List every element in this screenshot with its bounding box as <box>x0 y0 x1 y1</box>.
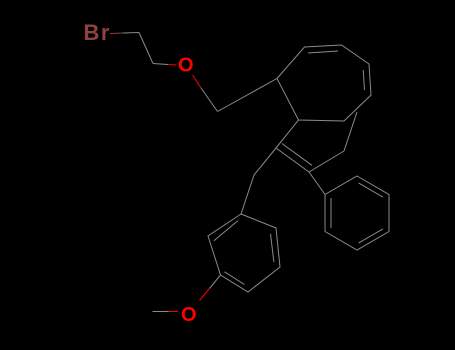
double bond C_A = C_B <box>276 148 309 172</box>
wire ethyl CH2 <box>309 151 344 172</box>
wire long bond to ring1 <box>218 79 278 112</box>
wire ethyl CH3 <box>344 112 357 151</box>
wire ring3 - O2 bond (gray then red) <box>210 275 221 289</box>
benzene ring2 (right) <box>325 176 389 250</box>
wire C2-O1 bond (half gray, half red) <box>153 64 168 65</box>
wire ring1 to C_A <box>276 120 299 148</box>
wire O1-ring bond (half red, half gray) <box>193 75 202 88</box>
benzene ring3 (bottom left) <box>208 214 280 292</box>
ring1: seven-membered ring (top) with two double bonds <box>277 45 371 121</box>
svg-text:O: O <box>181 304 197 326</box>
wire C_A - CH2 <box>254 148 276 175</box>
wire C_B - ring2 <box>309 172 325 195</box>
svg-text:Br: Br <box>84 20 111 45</box>
wire Br-C1 bond (half dark red, half gray) <box>110 32 123 35</box>
wire CH2 - ring3 <box>241 175 254 214</box>
svg-text:O: O <box>178 55 194 77</box>
wire CH3-O2 bond <box>153 311 169 313</box>
wire C1-C2 bond <box>139 33 153 64</box>
